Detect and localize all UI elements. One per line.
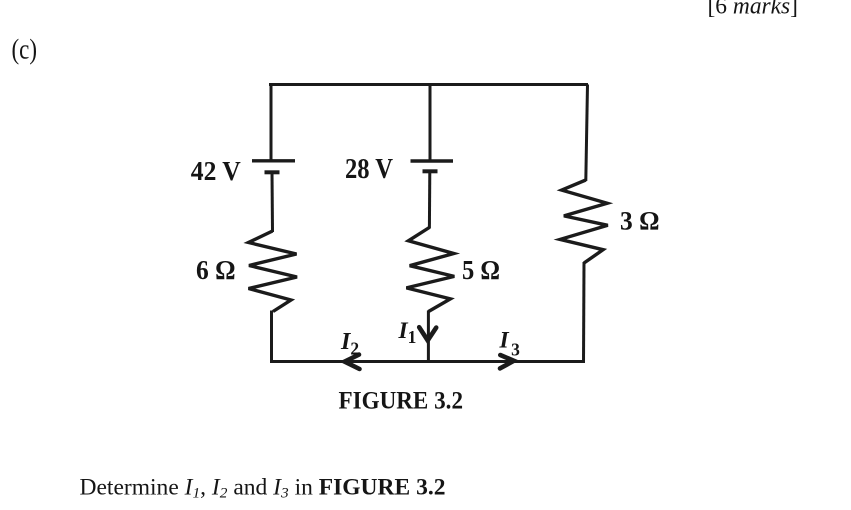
wire left upper bbox=[270, 83, 273, 161]
battery 28 V (short plate) bbox=[423, 169, 438, 173]
svg-text:3 Ω: 3 Ω bbox=[620, 207, 660, 236]
wire left middle bbox=[271, 172, 275, 232]
battery 42 V (short plate) bbox=[265, 170, 280, 174]
svg-text:28 V: 28 V bbox=[345, 154, 393, 185]
wire top bbox=[269, 83, 588, 86]
wire right upper bbox=[586, 85, 588, 182]
svg-text:5 Ω: 5 Ω bbox=[462, 255, 500, 285]
svg-text:6 Ω: 6 Ω bbox=[196, 254, 236, 285]
battery 28 V (long plate) bbox=[411, 159, 454, 162]
svg-text:(c): (c) bbox=[12, 35, 38, 66]
svg-text:FIGURE 3.2: FIGURE 3.2 bbox=[339, 388, 464, 415]
svg-text:42 V: 42 V bbox=[191, 155, 241, 186]
wire middle upper bbox=[429, 83, 432, 161]
svg-text:I2: I2 bbox=[340, 329, 359, 359]
current arrow I1 bbox=[419, 327, 436, 340]
wire left lower bbox=[270, 311, 273, 364]
resistor 6 ohm bbox=[249, 231, 298, 312]
battery 42 V (long plate) bbox=[252, 159, 295, 162]
current arrow I2 bbox=[345, 355, 360, 369]
resistor 5 ohm bbox=[406, 228, 454, 312]
wire middle middle bbox=[428, 171, 431, 228]
svg-text:I1: I1 bbox=[398, 318, 417, 347]
resistor 3 ohm bbox=[560, 180, 608, 263]
wire middle lower bbox=[427, 311, 430, 362]
svg-text:Determine I1, I2 and I3 in FIG: Determine I1, I2 and I3 in FIGURE 3.2 bbox=[80, 475, 446, 502]
svg-text:[6 marks]: [6 marks] bbox=[708, 0, 799, 20]
wire bottom bbox=[270, 360, 585, 363]
current arrow I3 bbox=[500, 355, 514, 368]
wire right lower bbox=[582, 262, 586, 363]
